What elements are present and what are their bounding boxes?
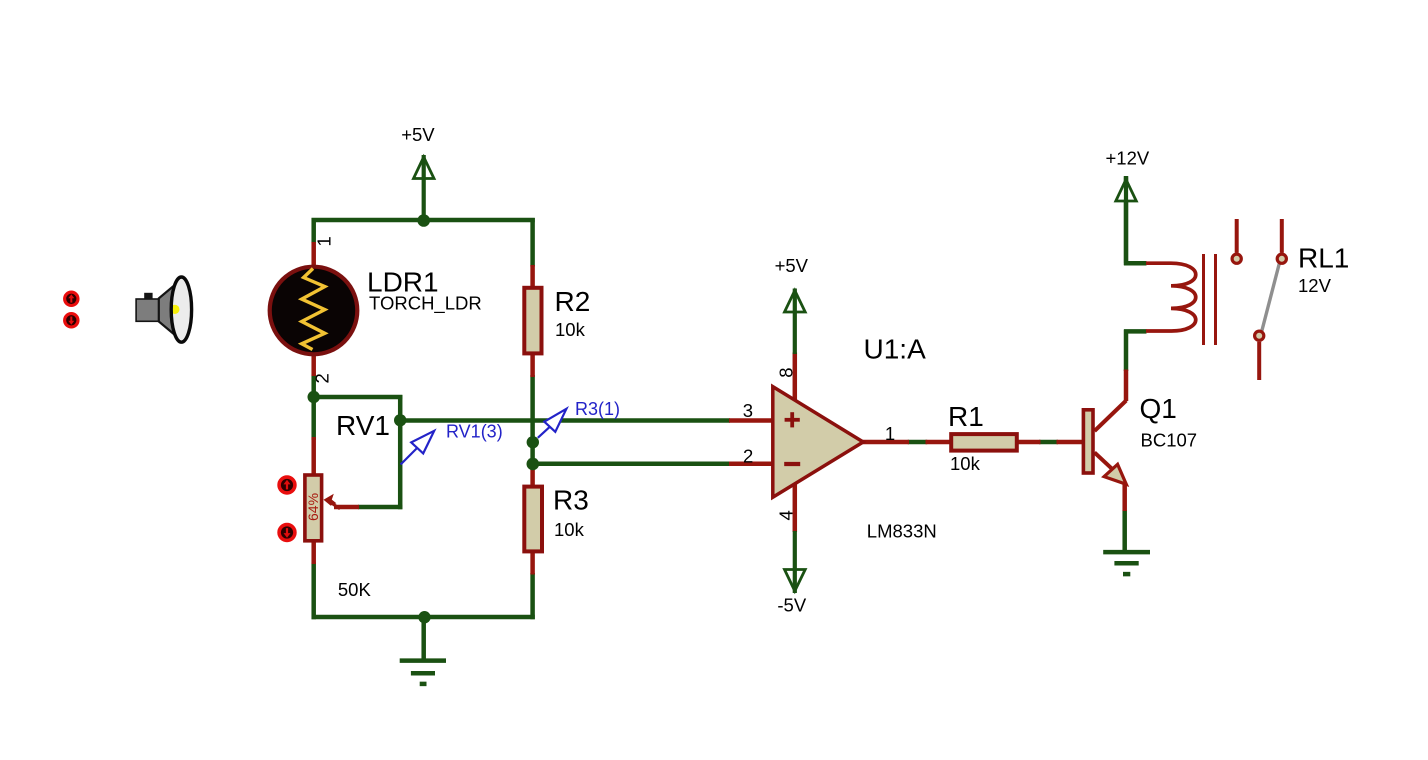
svg-text:10k: 10k [555, 319, 586, 340]
svg-text:1: 1 [314, 236, 335, 246]
svg-text:R1: R1 [948, 401, 984, 432]
svg-text:Q1: Q1 [1140, 393, 1177, 424]
svg-text:3: 3 [743, 400, 753, 421]
svg-text:8: 8 [776, 368, 797, 378]
svg-text:-5V: -5V [777, 595, 806, 616]
svg-text:1: 1 [885, 423, 895, 444]
svg-text:R3(1): R3(1) [575, 399, 620, 419]
svg-text:10k: 10k [950, 453, 981, 474]
svg-text:2: 2 [743, 446, 753, 467]
svg-text:LM833N: LM833N [867, 521, 937, 542]
svg-text:2: 2 [312, 373, 333, 383]
svg-text:RV1: RV1 [336, 410, 390, 441]
svg-text:U1:A: U1:A [864, 333, 927, 364]
svg-text:12V: 12V [1298, 275, 1332, 296]
svg-text:R3: R3 [553, 484, 589, 515]
svg-text:+5V: +5V [775, 255, 809, 276]
svg-text:+5V: +5V [401, 124, 435, 145]
svg-text:RV1(3): RV1(3) [446, 422, 503, 442]
svg-text:10k: 10k [554, 519, 585, 540]
svg-text:64%: 64% [305, 493, 321, 521]
svg-text:TORCH_LDR: TORCH_LDR [369, 293, 482, 315]
svg-text:RL1: RL1 [1298, 243, 1349, 274]
svg-text:BC107: BC107 [1141, 429, 1198, 450]
svg-text:50K: 50K [338, 579, 372, 600]
svg-text:+12V: +12V [1106, 148, 1150, 169]
svg-text:R2: R2 [555, 286, 591, 317]
svg-text:4: 4 [776, 510, 797, 520]
